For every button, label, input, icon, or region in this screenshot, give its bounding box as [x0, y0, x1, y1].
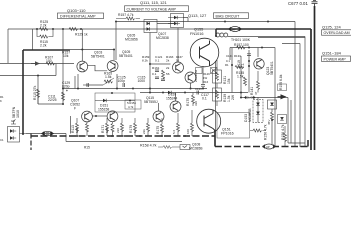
svg-text:CURRENT TO VOLTAGE AMP: CURRENT TO VOLTAGE AMP: [127, 7, 177, 11]
wire x23 thick vertical: [22, 50, 24, 134]
diode D159: [168, 91, 171, 95]
wire y104 horizontal: [38, 103, 63, 105]
resistor R135 vertical: [244, 77, 247, 86]
wire R179 stubs: [134, 118, 136, 136]
diode box right column: [268, 100, 277, 109]
ground bus corner x308: [307, 140, 309, 147]
power rail left thick x311: [310, 29, 312, 150]
fuse box with X below Q155: [211, 68, 218, 74]
svg-text:4.7k: 4.7k: [128, 105, 134, 109]
wire x275 vertical right: [274, 48, 276, 147]
wire y64 cluster: [150, 63, 171, 65]
wire x150 vertical: [149, 33, 151, 93]
label box BIAS CIRCUIT: [188, 13, 249, 19]
capacitor C113 polarized: [201, 85, 205, 87]
svg-text:Q155: Q155: [194, 28, 203, 32]
wire Q155 to Q151 x215.5: [215, 61, 217, 131]
svg-text:1k: 1k: [133, 129, 137, 133]
svg-text:1000: 1000: [138, 79, 146, 83]
svg-text:BIAS CIRCUIT: BIAS CIRCUIT: [216, 14, 241, 18]
wire y92.5 lower mid: [140, 92, 248, 94]
rectangle box Q151 module: [217, 113, 250, 139]
wire Q123 emitter: [257, 71, 259, 93]
transistor Q111 bottom row 2: [107, 111, 118, 122]
capacitor C129: [62, 54, 252, 101]
connector HP: [262, 144, 276, 149]
svg-text:R15: R15: [84, 146, 90, 150]
wire diode pair stubs: [168, 18, 184, 24]
svg-text:R175: R175: [186, 98, 190, 106]
wire T4 emitter down: [190, 83, 192, 89]
svg-text:45V: 45V: [267, 120, 271, 125]
svg-text:100: 100: [105, 128, 109, 133]
wire R157 stub: [116, 18, 140, 20]
svg-text:C677 0.01: C677 0.01: [288, 1, 308, 6]
svg-text:FN1016: FN1016: [190, 32, 204, 36]
resistor R175 vertical: [161, 124, 164, 133]
wire R171 stubs: [107, 118, 113, 136]
wire y47.5 box top: [230, 47, 275, 49]
wire R113 stubs: [77, 118, 87, 136]
svg-text:R115 27k: R115 27k: [33, 85, 37, 100]
wire x63 vertical: [62, 29, 64, 104]
svg-text:HP: HP: [266, 145, 270, 149]
svg-text:Q113, 127: Q113, 127: [188, 13, 207, 18]
capacitor C677 symbol: [312, 1, 318, 7]
wire D161 stubs: [257, 98, 259, 123]
svg-text:0.1: 0.1: [241, 63, 245, 68]
wire x203 lower stub: [202, 87, 204, 89]
svg-text:DIFFERENTIAL AMP: DIFFERENTIAL AMP: [60, 15, 96, 19]
wire y17 stub from diode box: [184, 18, 189, 22]
wire between T5 T6: [92, 115, 107, 117]
wire R165 arrow: [103, 78, 114, 85]
wire R175 330 stubs: [192, 93, 194, 107]
svg-text:FP1016: FP1016: [221, 132, 234, 136]
wire R115 stub: [37, 97, 39, 105]
wire x82.3 Q103 collector: [81, 29, 83, 61]
transistor Q103: [77, 61, 88, 72]
svg-text:Q151~184: Q151~184: [322, 51, 342, 56]
resistor R115 parallel: [40, 35, 49, 38]
label box OVERLOAD AMP: [322, 25, 351, 36]
resistor right column vertical: [271, 112, 274, 121]
resistor R115 27k vertical: [37, 89, 40, 98]
wire x288 vertical: [287, 98, 289, 144]
wire y50 right part: [70, 49, 115, 51]
resistor R171 vertical: [106, 123, 109, 132]
wire left vertical x8: [7, 29, 9, 63]
resistor R107 100: [46, 62, 55, 65]
svg-text:C121: C121: [226, 54, 233, 58]
resistor R125 top: [40, 28, 49, 31]
diode D103 left box: [144, 20, 157, 33]
wire x272 diode column: [271, 109, 273, 147]
resistor R125b 1k: [69, 28, 78, 31]
svg-text:GX: GX: [11, 119, 15, 123]
svg-text:10k: 10k: [63, 54, 69, 58]
svg-text:HF: HF: [232, 27, 236, 31]
resistor R141 vertical: [257, 81, 260, 90]
svg-text:155244: 155244: [166, 97, 177, 101]
capacitor C123: [197, 91, 199, 95]
svg-text:100: 100: [186, 129, 190, 134]
resistor R177 vertical: [121, 123, 124, 132]
svg-text:47: 47: [254, 91, 258, 95]
wire y21.5 horizontal long: [116, 21, 295, 23]
rectangle resistor box R139: [213, 88, 222, 101]
svg-text:25C3052: 25C3052: [194, 69, 198, 82]
input trimmer symbol: [11, 120, 16, 125]
resistor on box top: [237, 46, 246, 49]
svg-text:R157 4.7k: R157 4.7k: [118, 13, 134, 17]
svg-text:POWER AMP: POWER AMP: [324, 57, 347, 61]
wire y133.5 bottom left: [26, 133, 66, 135]
arrow input left: [31, 61, 40, 65]
wire y88 mid bus: [63, 88, 207, 90]
svg-text:MC2838: MC2838: [156, 36, 169, 40]
wire R156 stubs: [284, 126, 286, 147]
wire y50 thick left: [23, 49, 70, 51]
wire x78 vertical Q103 emitter: [77, 74, 79, 89]
resistor R135: [235, 66, 244, 69]
svg-text:R156 4.7k: R156 4.7k: [264, 124, 268, 140]
svg-text:155158: 155158: [98, 108, 109, 112]
capacitor C119 vertical: [247, 54, 251, 56]
arrow output right: [278, 94, 287, 99]
svg-text:2k: 2k: [166, 59, 170, 63]
wire y37.5 right: [258, 37, 305, 39]
wire y75 horizontal: [0, 75, 56, 77]
svg-text:56: 56: [166, 72, 170, 76]
ground bus dashed y146.5: [215, 146, 308, 148]
power transistor Q155: [190, 38, 219, 67]
svg-text:R125 1k: R125 1k: [75, 33, 88, 37]
power transistor Q151: [197, 109, 221, 133]
label wire R158: [158, 146, 180, 148]
svg-text:220: 220: [116, 128, 120, 133]
svg-text:MC2856: MC2856: [125, 38, 138, 42]
transistor Q123: [254, 59, 264, 69]
wire R181 stubs: [177, 113, 179, 136]
wire x300 vertical: [299, 44, 301, 148]
wire x116 vertical from top: [115, 22, 117, 61]
resistor R175 330 vertical: [192, 95, 195, 104]
diode pair D161 dashed box: [253, 100, 263, 123]
wire x70.5 stub: [70, 116, 72, 134]
wire R175 stubs: [161, 118, 163, 136]
transistor Q109 bottom row 1: [82, 111, 93, 122]
wire y23.5 short: [157, 23, 174, 25]
resistor R173 vertical: [147, 123, 150, 132]
capacitor C111 polarized: [62, 92, 65, 101]
svg-text:2.2k: 2.2k: [40, 44, 47, 48]
rectangle small box bottom: [180, 145, 190, 150]
svg-text:56: 56: [176, 59, 180, 63]
resistor R157 4.7k: [126, 17, 135, 20]
label box POWER AMP: [322, 51, 351, 62]
wire T7 collector up: [158, 103, 160, 111]
label box CURRENT TO VOLTAGE AMP: [125, 0, 189, 11]
svg-text:5BT555J: 5BT555J: [144, 100, 158, 104]
svg-text:1010: 1010: [16, 110, 20, 118]
svg-text:0.1: 0.1: [152, 72, 157, 76]
svg-text:1.5k: 1.5k: [105, 75, 112, 79]
ground bus step x215 heavy: [214, 131, 216, 147]
wire top bus y29: [8, 28, 216, 30]
wire x38 vertical: [37, 76, 39, 105]
wire y141.5 bottom: [66, 141, 182, 143]
wire parallel bracket: [37, 29, 53, 37]
capacitor C115 stack: [155, 70, 159, 72]
diode input box left: [8, 127, 20, 143]
wire between Q103 Q105: [88, 65, 108, 71]
svg-text:8.2k: 8.2k: [142, 59, 148, 63]
resistor small stack: [162, 70, 165, 79]
wire x114 Q105 collector: [113, 50, 115, 61]
resistor R179 vertical: [134, 123, 137, 132]
svg-text:R1: R1: [225, 63, 229, 67]
capacitor C125: [123, 83, 125, 87]
svg-text:R158 4.7k: R158 4.7k: [140, 144, 157, 148]
wire R139 column: [216, 60, 218, 106]
transistor Q121 bottom row 4: [170, 101, 181, 112]
svg-text:2k: 2k: [166, 66, 170, 70]
svg-text:MC2B5B: MC2B5B: [248, 108, 252, 122]
inductor L101 coil: [216, 33, 228, 37]
svg-text:C123: C123: [195, 87, 202, 91]
svg-text:2W: 2W: [231, 94, 235, 100]
svg-text:1.5k: 1.5k: [237, 75, 244, 79]
wire heavy top bus with HF connector: [216, 28, 311, 30]
wire x178 diode to Q107: [177, 28, 179, 62]
connector M bottom left: [41, 131, 54, 136]
resistor R156 bottom right vertical: [284, 133, 287, 142]
wire input diode stubs: [13, 131, 26, 138]
wire R173 stubs: [147, 118, 149, 136]
diode D101 top pair upper: [8, 14, 277, 143]
wire R177 stubs: [121, 118, 123, 136]
wire y97.5 CL OK line: [241, 97, 288, 99]
svg-text:R161: R161: [152, 66, 160, 70]
svg-text:R133: R133: [234, 54, 241, 58]
transistor Q105: [107, 61, 118, 72]
ground bus dashed y136: [31, 135, 215, 137]
resistor R165 variable: [104, 80, 113, 83]
wire y143 bottom right box: [288, 142, 305, 144]
svg-text:15k: 15k: [227, 78, 231, 84]
wire R156 stubs2: [250, 130, 266, 132]
svg-text:OVERLOAD AM: OVERLOAD AM: [324, 31, 350, 35]
wire x230 vertical: [229, 48, 231, 61]
svg-text:22/25: 22/25: [48, 98, 57, 102]
connector HF: [228, 26, 242, 31]
label box DIFFERENTIAL AMP: [58, 8, 104, 19]
svg-text:0.1: 0.1: [202, 97, 207, 101]
svg-text:Q103~110: Q103~110: [67, 8, 86, 13]
svg-text:CL OK: CL OK: [246, 96, 254, 100]
wire x66 corner down: [65, 134, 67, 142]
svg-text:Q125, 124: Q125, 124: [322, 25, 341, 30]
svg-text:R16: R16: [203, 80, 209, 84]
svg-text:MC2B5B: MC2B5B: [189, 147, 203, 151]
wire x117 vertical Q105 emitter: [116, 74, 118, 89]
wire x232 vertical: [231, 48, 233, 93]
wire x295 vertical: [294, 22, 296, 148]
transistor Q117 bottom row 3: [153, 111, 164, 122]
svg-text:100p: 100p: [118, 79, 126, 83]
diode box right lower: [278, 115, 287, 124]
wire x75 stub: [74, 76, 76, 89]
rectangle resistor box R131: [180, 60, 222, 150]
svg-text:F: F: [74, 107, 76, 111]
wire y85 cap row: [86, 84, 103, 86]
svg-text:C1: C1: [0, 138, 4, 142]
svg-text:5BT5401: 5BT5401: [270, 61, 274, 75]
svg-text:100: 100: [46, 59, 52, 63]
transistor Q107 pair upper: [173, 62, 184, 73]
wire T8 collector up: [175, 93, 177, 102]
wire Q123 collector: [257, 48, 259, 58]
resistor R181 vertical: [177, 123, 180, 132]
svg-text:5BT5401: 5BT5401: [91, 55, 105, 59]
wire x241 vertical: [240, 56, 242, 98]
wire y43 right: [282, 43, 300, 45]
resistor R156 horizontal: [253, 129, 262, 132]
svg-text:22k: 22k: [142, 129, 146, 134]
resistor R113 vertical: [76, 123, 79, 132]
svg-text:R157 100: R157 100: [234, 43, 249, 47]
junction dots: [36, 28, 38, 30]
svg-text:2.2k: 2.2k: [40, 24, 47, 28]
resistor R183 vertical: [191, 123, 194, 132]
connector CL OK: [244, 96, 256, 100]
power rail right thick x314.5: [314, 6, 316, 150]
svg-text:330: 330: [194, 101, 198, 106]
wire heavy stub x216 down: [215, 29, 217, 36]
wire x305 vertical: [304, 37, 306, 148]
svg-text:R156 4.7k: R156 4.7k: [281, 124, 285, 140]
wire left diode stubs: [147, 23, 150, 25]
svg-text:5BT5401: 5BT5401: [119, 54, 133, 58]
wire x32.5 vertical: [32, 29, 34, 50]
svg-text:R175: R175: [156, 126, 160, 134]
wire coil output y36.5: [228, 36, 305, 38]
relay box right mid: [278, 84, 287, 91]
svg-text:820p: 820p: [62, 85, 70, 89]
wire dashed x31 down: [30, 134, 32, 151]
wire C129 stubs: [83, 84, 89, 86]
svg-text:TH101 100K: TH101 100K: [231, 38, 251, 42]
svg-text:100: 100: [75, 128, 79, 133]
wire box horizontal: [95, 100, 135, 102]
svg-text:0.1: 0.1: [155, 59, 160, 63]
wire x203 vertical: [202, 66, 204, 84]
wire R183 stubs: [191, 110, 193, 136]
diode D151: [103, 99, 106, 103]
resistor box 1k below Q155: [196, 68, 203, 74]
svg-text:Q111, 115, 121: Q111, 115, 121: [140, 0, 167, 5]
svg-text:5.6: 5.6: [172, 129, 176, 134]
wire x291 vertical: [290, 100, 292, 143]
svg-text:R155 6.8k: R155 6.8k: [279, 74, 283, 90]
svg-text:K: K: [0, 99, 2, 103]
rectangle box D151 region: [95, 93, 135, 112]
wire x56 stub: [55, 64, 57, 76]
wire x249 vertical: [248, 50, 250, 93]
transistor Q115 pair lower: [185, 72, 196, 83]
label R151 box: [125, 100, 141, 109]
wire y63 horizontal: [0, 63, 74, 65]
